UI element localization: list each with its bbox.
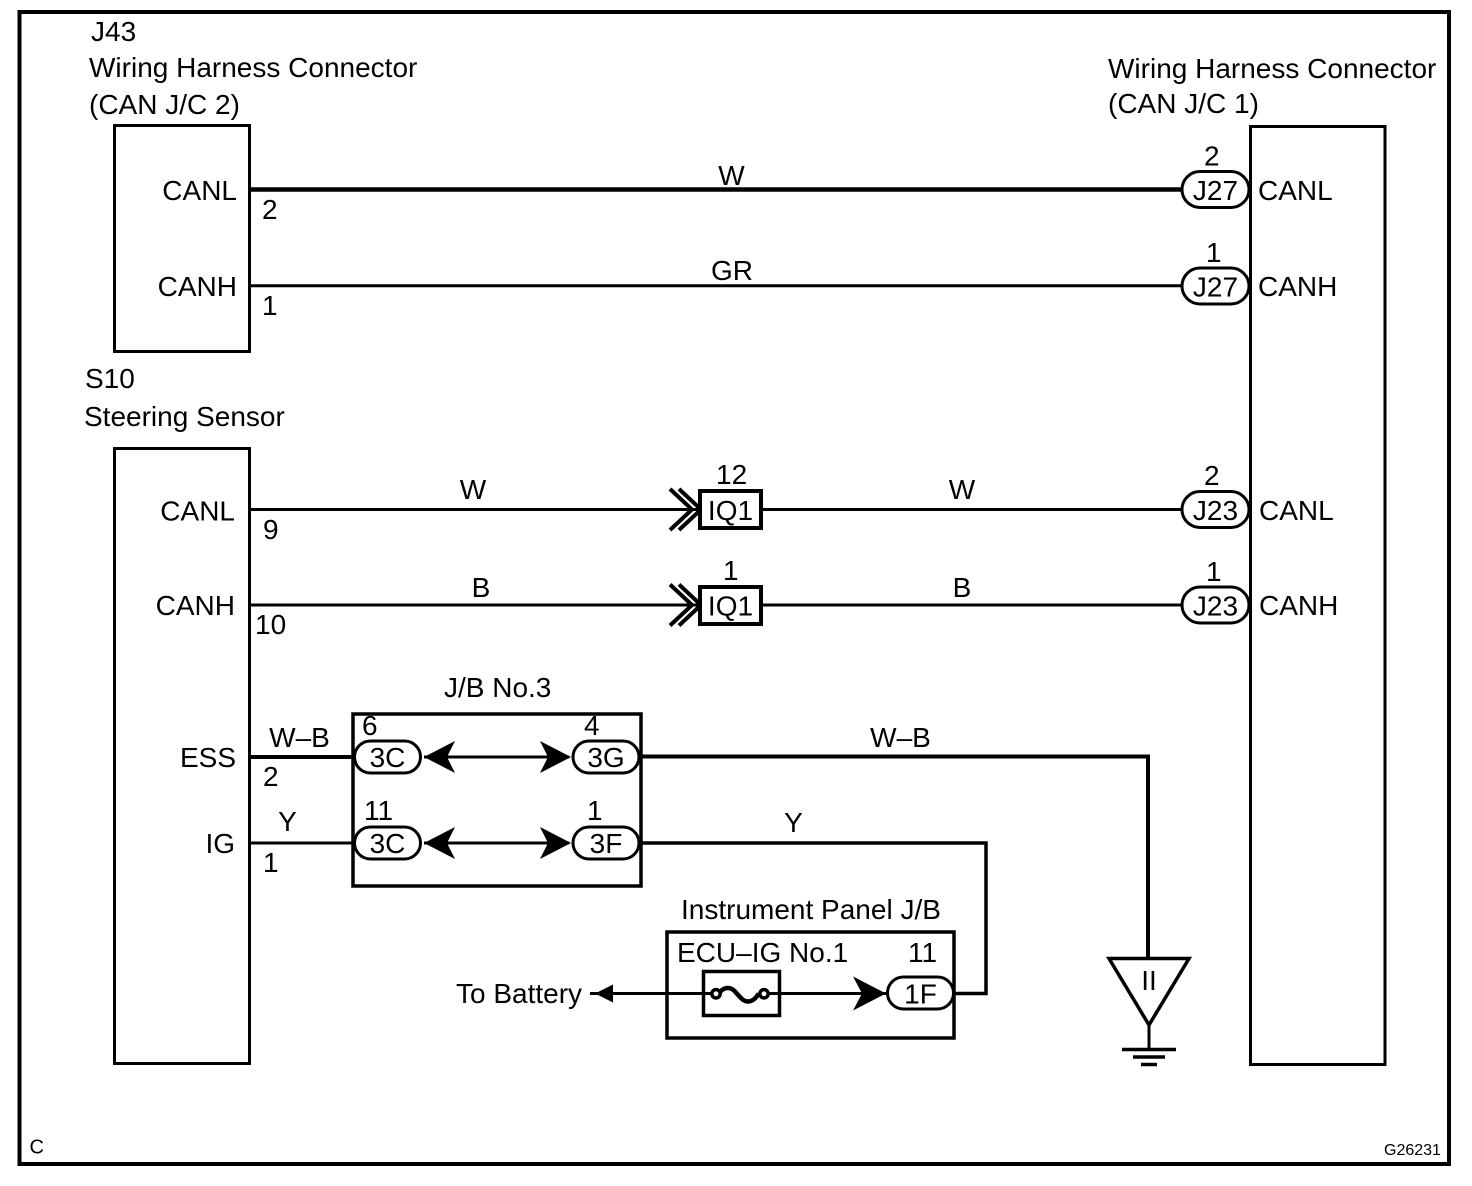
wire label W (mid right) (949, 474, 976, 505)
pin number 1 (J27 CANH) (1206, 237, 1222, 268)
connector CAN J/C 1 box (1251, 127, 1386, 1065)
pin label IG (205, 828, 235, 859)
svg-text:Y: Y (278, 806, 297, 837)
pin number 2 (J23 CANL) (1204, 460, 1220, 491)
svg-text:II: II (1141, 965, 1157, 996)
pin label CANH (J/C1 row4) (1259, 590, 1338, 621)
label To Battery (456, 978, 582, 1009)
svg-text:(CAN J/C 1): (CAN J/C 1) (1108, 88, 1259, 119)
label Steering Sensor (84, 401, 285, 432)
wire W-B ESS to 3C (250, 755, 356, 759)
svg-text:W–B: W–B (269, 722, 330, 753)
svg-text:2: 2 (263, 761, 279, 792)
connector code J23 (CANH) (1182, 587, 1249, 623)
svg-text:1: 1 (263, 847, 279, 878)
pin number 9 (S10 CANL) (263, 514, 279, 545)
svg-text:W: W (949, 474, 976, 505)
svg-text:W: W (460, 474, 487, 505)
svg-text:Steering Sensor: Steering Sensor (84, 401, 285, 432)
wire W S10 CANL to IQ1 (250, 508, 700, 511)
wire Y 3F to 1F (639, 843, 986, 994)
svg-text:IQ1: IQ1 (708, 591, 753, 622)
svg-text:J27: J27 (1193, 175, 1238, 206)
pin number 1 (J23 CANH) (1206, 556, 1222, 587)
pin number 4 (3G) (584, 710, 600, 741)
svg-text:J/B No.3: J/B No.3 (444, 672, 551, 703)
svg-text:CANL: CANL (1259, 495, 1334, 526)
pin number 2 (J43 CANL) (262, 194, 278, 225)
pin number 6 (3C) (362, 710, 378, 741)
arrow left (J/B ESS row) (424, 741, 455, 773)
svg-text:12: 12 (716, 459, 747, 490)
connector code 3F (573, 827, 639, 859)
svg-text:IQ1: IQ1 (708, 495, 753, 526)
pin number 2 (J27 CANL) (1204, 141, 1220, 172)
ground stub (1148, 1025, 1151, 1049)
pass-through chevrons (IQ1 CANL) (670, 489, 701, 530)
svg-text:C: C (30, 1137, 44, 1159)
footer C (30, 1137, 44, 1159)
pin label CANL (J43) (162, 175, 237, 206)
wire inside J/B (ESS row) (424, 756, 569, 759)
svg-text:9: 9 (263, 514, 279, 545)
pin number 12 (IQ1) (716, 459, 747, 490)
svg-text:11: 11 (364, 795, 393, 826)
svg-text:J23: J23 (1193, 591, 1238, 622)
svg-text:CANL: CANL (160, 496, 235, 527)
wire W J43 CANL to J27 (250, 187, 1181, 192)
wire B S10 CANH to IQ1 (250, 604, 700, 607)
pin number 11 (3C IG) (364, 795, 393, 826)
pin number 1 (J43 CANH) (262, 290, 278, 321)
svg-text:10: 10 (255, 609, 286, 640)
svg-text:GR: GR (711, 255, 753, 286)
svg-text:3G: 3G (587, 742, 624, 773)
svg-text:J43: J43 (91, 16, 136, 47)
wire label GR (711, 255, 753, 286)
svg-text:1F: 1F (904, 979, 937, 1010)
svg-text:G26231: G26231 (1384, 1142, 1441, 1159)
wire To Battery (590, 992, 712, 995)
wire W IQ1 to J23 (761, 508, 1181, 511)
svg-text:2: 2 (1204, 141, 1220, 172)
junction block J/B No.3 box (353, 714, 641, 886)
label J43 header (91, 16, 136, 47)
svg-text:B: B (472, 572, 491, 603)
svg-text:Wiring Harness Connector: Wiring Harness Connector (1108, 53, 1436, 84)
wire label B (mid left) (472, 572, 491, 603)
pin label CANH (J/C1 row2) (1258, 271, 1337, 302)
fuse element (712, 988, 768, 1001)
connector code IQ1 (CANH) (700, 587, 761, 624)
svg-text:CANL: CANL (162, 175, 237, 206)
wire B IQ1 to J23 (761, 604, 1181, 607)
connector J43 (CAN J/C 2) box (115, 126, 250, 352)
wire inside J/B (IG row) (424, 842, 569, 845)
arrow right (1F) (853, 977, 886, 1011)
svg-text:To Battery: To Battery (456, 978, 582, 1009)
svg-text:W–B: W–B (870, 722, 931, 753)
pin label CANH (J43) (158, 271, 237, 302)
svg-text:1: 1 (587, 795, 603, 826)
svg-text:J27: J27 (1193, 272, 1238, 303)
svg-text:W: W (718, 160, 745, 191)
ground triangle II (1109, 959, 1189, 1026)
svg-text:3C: 3C (370, 828, 406, 859)
label ECU-IG No.1 (677, 937, 848, 968)
svg-text:CANH: CANH (1259, 590, 1338, 621)
label (CAN J/C 1) (1108, 88, 1259, 119)
svg-text:CANL: CANL (1258, 175, 1333, 206)
connector code J27 (CANL) (1182, 172, 1249, 208)
svg-text:B: B (953, 572, 972, 603)
footer G26231 (1384, 1142, 1441, 1159)
svg-text:6: 6 (362, 710, 378, 741)
wire label B (mid right) (953, 572, 972, 603)
svg-text:Instrument Panel J/B: Instrument Panel J/B (681, 894, 941, 925)
arrow right (J/B ESS row) (540, 741, 571, 773)
connector code 3C (ESS) (355, 741, 421, 773)
wire W-B 3G to ground (639, 757, 1148, 960)
pin number 1 (IG) (263, 847, 279, 878)
svg-text:1: 1 (262, 290, 278, 321)
svg-text:3F: 3F (590, 828, 623, 859)
connector S10 Steering Sensor box (115, 449, 250, 1064)
pin label ESS (180, 742, 236, 773)
pin label CANL (J/C1 row1) (1258, 175, 1333, 206)
junction block Instrument Panel J/B box (667, 932, 954, 1038)
svg-text:CANH: CANH (158, 271, 237, 302)
svg-text:S10: S10 (85, 363, 135, 394)
pin number 11 (1F) (908, 937, 937, 968)
connector code 1F (888, 977, 954, 1010)
svg-text:1: 1 (1206, 237, 1222, 268)
svg-text:CANH: CANH (1258, 271, 1337, 302)
svg-text:CANH: CANH (156, 590, 235, 621)
svg-text:2: 2 (1204, 460, 1220, 491)
svg-text:2: 2 (262, 194, 278, 225)
svg-text:3C: 3C (370, 742, 406, 773)
wire label W (top) (718, 160, 745, 191)
wire label W-B (left) (269, 722, 330, 753)
connector code J23 (CANL) (1182, 492, 1249, 528)
pin number 1 (IQ1 CANH) (723, 555, 739, 586)
connector code 3G (573, 741, 639, 773)
wire Y IG to 3C (250, 842, 356, 845)
svg-text:Y: Y (784, 807, 803, 838)
wire fuse to 1F (768, 992, 887, 995)
label (CAN J/C 2) (89, 89, 240, 120)
svg-text:ECU–IG No.1: ECU–IG No.1 (677, 937, 848, 968)
pin label CANL (J/C1 row3) (1259, 495, 1334, 526)
svg-text:1: 1 (723, 555, 739, 586)
svg-text:(CAN J/C 2): (CAN J/C 2) (89, 89, 240, 120)
pin label CANL (S10) (160, 496, 235, 527)
pin label CANH (S10) (156, 590, 235, 621)
svg-text:J23: J23 (1193, 495, 1238, 526)
label Instrument Panel J/B (681, 894, 941, 925)
pin number 2 (ESS) (263, 761, 279, 792)
label J/B No.3 (444, 672, 551, 703)
label S10 header (85, 363, 135, 394)
fuse ECU-IG No.1 box (704, 972, 780, 1016)
pin number 10 (S10 CANH) (255, 609, 286, 640)
connector code J27 (CANH) (1182, 268, 1249, 304)
arrow left (J/B IG row) (424, 827, 455, 859)
pin number 1 (3F) (587, 795, 603, 826)
wire label W (mid left) (460, 474, 487, 505)
wire label W-B (right) (870, 722, 931, 753)
svg-text:ESS: ESS (180, 742, 236, 773)
pass-through chevrons (IQ1 CANH) (670, 585, 701, 626)
wire GR J43 CANH to J27 (250, 284, 1181, 287)
label Wiring Harness Connector (right) (1108, 53, 1436, 84)
connector code 3C (IG) (355, 827, 421, 859)
label Wiring Harness Connector (left) (89, 52, 417, 83)
svg-text:1: 1 (1206, 556, 1222, 587)
svg-text:Wiring Harness Connector: Wiring Harness Connector (89, 52, 417, 83)
wire label Y (left) (278, 806, 297, 837)
svg-text:IG: IG (205, 828, 235, 859)
svg-text:4: 4 (584, 710, 600, 741)
arrow right (J/B IG row) (540, 827, 571, 859)
wire label Y (right) (784, 807, 803, 838)
ground hatch (1122, 1050, 1176, 1065)
svg-text:11: 11 (908, 937, 937, 968)
connector code IQ1 (CANL) (700, 491, 761, 528)
arrowhead To Battery (595, 985, 613, 1003)
